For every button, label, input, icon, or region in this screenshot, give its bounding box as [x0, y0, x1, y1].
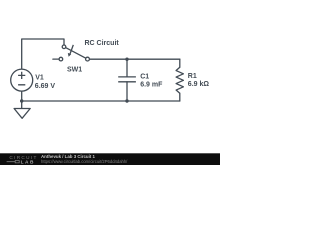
wire V1 bottom to ground node [21, 91, 23, 101]
svg-text:https://www.circuitlab.com/cir: https://www.circuitlab.com/circuit/2P6dd… [41, 159, 128, 164]
footer CircuitLab logo [7, 155, 38, 165]
switch SW1 [59, 45, 89, 61]
label R1 value [188, 73, 210, 88]
label C1 value [140, 73, 163, 88]
svg-text:SW1: SW1 [67, 67, 82, 74]
svg-text:6.9 mF: 6.9 mF [140, 82, 163, 89]
svg-text:6.69 V: 6.69 V [35, 83, 56, 90]
svg-text:RC Circuit: RC Circuit [85, 40, 120, 47]
footer watermark bar [0, 153, 220, 165]
resistor R1 [176, 67, 183, 93]
svg-text:LAB: LAB [21, 159, 35, 165]
node junction at V1/ground [20, 99, 23, 102]
switch actuator arrowhead [68, 53, 71, 57]
svg-text:C1: C1 [140, 73, 149, 80]
wire resistor bottom lead [179, 93, 181, 101]
ground [14, 101, 30, 118]
node junction cap top [125, 58, 128, 61]
capacitor C1 [118, 77, 136, 82]
svg-text:R1: R1 [188, 73, 197, 80]
svg-text:V1: V1 [35, 75, 44, 82]
wire top rail switch to resistor [89, 58, 179, 60]
voltage source V1 [11, 69, 33, 91]
svg-text:6.9 kΩ: 6.9 kΩ [188, 81, 210, 88]
wire resistor top lead [179, 59, 181, 67]
wire switch open-throw stub [53, 58, 59, 60]
wire capacitor top lead [126, 59, 128, 77]
node junction cap bottom [125, 99, 128, 102]
label V1 value [35, 75, 56, 90]
svg-text:CIRCUIT: CIRCUIT [9, 155, 37, 160]
wire bottom rail [22, 100, 180, 102]
wire top-left from V1 to switch [22, 39, 64, 69]
wire capacitor bottom lead [126, 82, 128, 101]
